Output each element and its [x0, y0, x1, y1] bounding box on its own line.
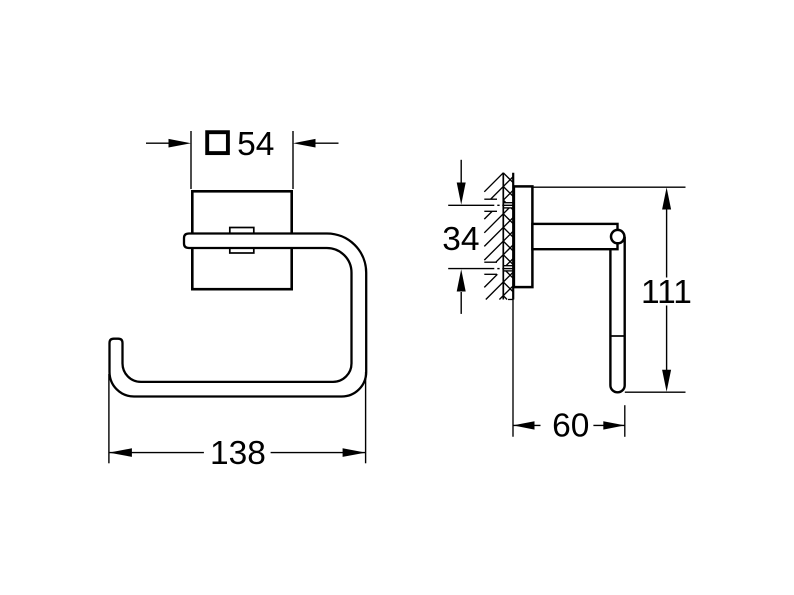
mounting hole upper (white cutouts in hatching) [484, 199, 513, 211]
dimension line 60 left segment with arrow [513, 421, 541, 429]
extension line left of square-54 dimension [190, 131, 192, 189]
wall plate (front view) [192, 191, 291, 289]
dimension line 111 with arrows [662, 187, 671, 391]
centre line of upper mounting hole (ext. line for 34) [448, 204, 513, 206]
extension line bottom of dimension 111 [625, 391, 686, 393]
wall back line [502, 173, 504, 300]
centre line of lower mounting hole (ext. line for 34) [448, 268, 513, 270]
mounting hole lower (white cutouts in hatching) [484, 262, 513, 274]
wall hatching (45 deg lines behind wall, crossing into tile band) [484, 173, 513, 300]
arm bracket seen from front [230, 228, 254, 254]
support arm (side view) [532, 224, 617, 249]
extension line right of square-54 dimension [292, 131, 294, 189]
svg-text:60: 60 [552, 407, 589, 444]
tile layer zigzag hatching (between wall lines) [503, 173, 513, 300]
tube cross-section circle [611, 230, 624, 243]
dimension 34 top arrow [457, 160, 466, 205]
extension line left of dimension 60 (below wall) [512, 300, 514, 437]
wall front line [512, 173, 514, 300]
extension line left of dimension 138 [108, 374, 110, 463]
dimension 54 right leader and arrow [293, 139, 339, 148]
rod end tick [610, 335, 624, 337]
dimension line 138 left segment with arrow [109, 448, 204, 457]
svg-text:111: 111 [641, 274, 692, 311]
dimension 34 bottom arrow [457, 269, 466, 314]
square symbol of dimension 54 [207, 132, 228, 153]
svg-text:138: 138 [210, 435, 266, 472]
wall plate (side view) [514, 186, 533, 287]
dimension line 138 right segment with arrow [271, 448, 366, 457]
dimension 54 left leader and arrow [146, 139, 191, 148]
extension line top of dimension 111 [533, 186, 686, 188]
extension line right of dimension 60 [624, 405, 626, 437]
paper holder tube (front view, open U hook) [110, 234, 367, 397]
paper roll rod (side view, hangs down) [610, 237, 624, 393]
extension line right of dimension 138 [365, 372, 367, 463]
dimension line 60 right segment with arrow [593, 421, 624, 429]
svg-text:54: 54 [237, 126, 274, 163]
svg-text:34: 34 [442, 221, 479, 258]
